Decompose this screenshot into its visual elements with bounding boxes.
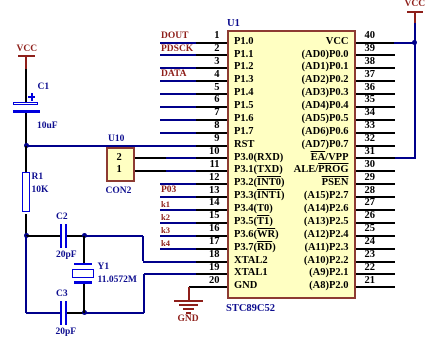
pin number 9 [214,134,219,145]
pin number 40 [365,31,376,42]
wire [160,183,196,185]
value 10K [32,186,49,196]
wire [160,209,196,211]
pin 30 [356,170,395,172]
pin 1 U10 [135,170,166,172]
pin name P3.2(INT0) [234,178,284,189]
wire [160,132,196,134]
pin name (A13)P2.5 [304,217,349,228]
pin number 38 [365,57,376,68]
pin number 16 [209,224,220,235]
pin number 31 [365,147,376,158]
pin 2 U10 [135,157,166,159]
wire RST [26,145,160,147]
designator C1 [38,83,50,93]
pin name RST [234,140,254,151]
pin 37 [356,80,395,82]
wire [166,157,196,159]
pin number 6 [214,95,219,106]
node P03 [161,186,176,196]
pin number 33 [365,121,376,132]
pin number 28 [365,186,376,197]
pin 1 [196,42,227,44]
pin number 29 [365,173,376,184]
pin 7 [196,119,227,121]
pin 28 [356,196,395,198]
pin name P1.2 [234,62,254,73]
pin number 13 [209,186,220,197]
pin name P1.6 [234,114,254,125]
wire [26,235,60,237]
pin name P3.7(RD) [234,243,276,254]
node k4 [161,239,170,248]
pin number 1 of U10 [117,165,122,176]
pin 15 [196,222,227,224]
pin number 1 [214,31,219,42]
node k3 [161,226,170,235]
pin number 32 [365,134,376,145]
wire [83,284,85,313]
value 20pF [56,328,77,338]
pin 13 [196,196,227,198]
pin name (A11)P2.3 [304,243,348,254]
wire [67,235,84,237]
wire [25,236,27,313]
pin 23 [356,261,395,263]
pin 5 [196,93,227,95]
pin name EA/VPP [311,153,349,164]
designator U10 [108,135,124,145]
wire XTAL2 [143,261,197,263]
junction [412,40,417,45]
pin 12 [196,183,227,185]
pin 9 [196,145,227,147]
wire [166,170,196,172]
pin name (AD6)P0.6 [302,127,349,138]
pin number 14 [209,198,220,209]
node DATA [161,70,187,80]
pin 40 [356,42,395,44]
pin 20 [196,286,227,288]
ground label GND [178,315,199,325]
pin number 37 [365,70,376,81]
pin name (AD1)P0.1 [302,62,349,73]
pin number 8 [214,121,219,132]
node PDSCK [161,45,193,55]
pin name VCC [326,37,349,48]
pin 11 [196,170,227,172]
pin name P3.6(WR) [234,230,279,241]
power VCC left [17,45,38,55]
pin name XTAL1 [234,268,268,279]
pin name (A15)P2.7 [304,191,349,202]
pin name (A12)P2.4 [304,230,349,241]
wire [160,196,196,198]
wire [25,113,27,145]
pin 14 [196,209,227,211]
pin name GND [234,281,257,292]
junction [24,233,29,238]
pin 10 [196,157,227,159]
value 20pF [56,251,77,261]
wire [414,12,416,23]
wire [67,312,84,314]
pin 21 [356,286,395,288]
wire pin40 [394,42,415,44]
pin 35 [356,106,395,108]
wire [25,214,27,236]
pin 2 [196,54,227,56]
pin 29 [356,183,395,185]
pin number 12 [209,173,220,184]
pin number 36 [365,83,376,94]
pin name P3.0(RXD) [234,153,283,164]
wire [25,69,27,102]
wire [84,312,144,314]
pin number 5 [214,83,219,94]
pin number 2 of U10 [117,153,122,164]
power VCC right [405,0,426,9]
value STC89C52 [226,304,275,315]
pin name PSEN [322,178,349,189]
pin name (A14)P2.6 [304,204,349,215]
pin name (AD7)P0.7 [302,140,349,151]
pin name (AD5)P0.5 [302,114,349,125]
pin name (AD3)P0.3 [302,88,349,99]
pin 39 [356,54,395,56]
pin name P3.5(T1) [234,217,273,228]
wire [189,286,197,288]
capacitor C2 [60,224,63,248]
pin name P1.0 [234,37,254,48]
wire [160,235,196,237]
designator C3 [56,290,68,300]
pin 32 [356,145,395,147]
designator Y1 [98,263,110,273]
wire [160,80,196,82]
pin 4 [196,80,227,82]
designator U1 [227,19,240,30]
pin number 19 [209,263,220,274]
pin number 21 [365,276,376,287]
pin name (AD4)P0.4 [302,101,349,112]
pin number 10 [209,147,220,158]
pin number 15 [209,211,220,222]
pin number 17 [209,237,220,248]
pin number 30 [365,160,376,171]
resistor R1 [22,172,30,212]
connector U10 (CON2) [106,147,135,183]
pin 27 [356,209,395,211]
wire [414,23,416,159]
pin number 35 [365,95,376,106]
node RST junction [24,143,29,148]
value CON2 [106,187,132,197]
wire [160,248,196,250]
pin name (A10)P2.2 [304,256,349,267]
wire [160,93,196,95]
pin name P1.4 [234,88,254,99]
wire EA/VPP [395,157,416,159]
pin 3 [196,67,227,69]
node k2 [161,213,170,222]
pin name (A9)P2.1 [309,268,348,279]
pin 22 [356,273,395,275]
wire [26,312,60,314]
pin name (AD2)P0.2 [302,75,349,86]
pin name P1.7 [234,127,254,138]
wire [25,57,27,70]
pin 25 [356,235,395,237]
pin 38 [356,67,395,69]
pin 16 [196,235,227,237]
node DOUT [161,32,188,42]
wire [160,42,196,44]
wire [160,119,196,121]
wire [160,67,196,69]
wire [143,274,145,312]
pin name P1.5 [234,101,254,112]
wire [25,146,27,173]
wire [84,235,143,237]
pin number 4 [214,70,219,81]
pin number 26 [365,211,376,222]
pin number 18 [209,250,220,261]
pin name ALE/PROG [294,165,349,176]
wire XTAL1 [144,273,197,275]
pin 8 [196,132,227,134]
pin number 24 [365,237,376,248]
capacitor C3 [60,301,63,325]
pin number 11 [210,160,220,171]
pin 6 [196,106,227,108]
pin name P3.1(TXD) [234,165,283,176]
pin 24 [356,248,395,250]
pin name P1.1 [234,50,254,61]
wire [160,54,196,56]
ground GND [188,287,190,301]
wire [160,222,196,224]
node k1 [161,200,170,209]
pin number 22 [365,263,376,274]
pin 19 [196,273,227,275]
pin number 25 [365,224,376,235]
designator R1 [32,173,44,183]
pin name (AD0)P0.0 [302,50,349,61]
capacitor C1 [13,102,38,106]
wire [83,236,85,263]
value 11.0572M [98,276,137,286]
pin name XTAL2 [234,256,268,267]
pin 17 [196,248,227,250]
pin number 7 [214,108,219,119]
crystal Y1 [74,263,92,265]
wire [142,236,144,262]
pin name P1.3 [234,75,254,86]
wire [160,106,196,108]
junction [82,310,87,315]
pin 33 [356,132,395,134]
IC U1 STC89C52 microcontroller [227,30,357,299]
pin 36 [356,93,395,95]
designator C2 [56,213,68,223]
wire [160,145,196,147]
pin name P3.4(T0) [234,204,273,215]
pin 31 [356,157,395,159]
value 10uF [37,122,58,132]
pin 34 [356,119,395,121]
pin 26 [356,222,395,224]
pin number 3 [214,57,219,68]
pin number 23 [365,250,376,261]
pin name P3.3(INT1) [234,191,284,202]
pin 18 [196,261,227,263]
pin number 2 [214,44,219,55]
pin number 39 [365,44,376,55]
pin number 20 [209,276,220,287]
pin name (A8)P2.0 [309,281,348,292]
pin number 27 [365,198,376,209]
junction [82,233,87,238]
pin number 34 [365,108,376,119]
